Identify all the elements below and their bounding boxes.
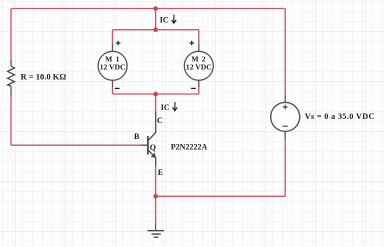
junction node motor top rail [153,27,158,32]
junction node top rail [153,6,158,11]
wire motor bottom rail [113,93,199,95]
motor M2 minus sign [191,87,196,89]
svg-text:12 VDC: 12 VDC [100,63,126,72]
svg-text:Vs = 0 a 35.0 VDC: Vs = 0 a 35.0 VDC [305,112,375,121]
transistor Q1 base lead [141,144,148,146]
wire M1 top [112,30,114,44]
ground lead [155,224,157,231]
wire emitter down [155,166,157,224]
voltage source plus sign [283,105,288,110]
ground symbol [148,231,165,238]
svg-text:E: E [158,168,163,177]
wire base horizontal run [11,144,141,146]
transistor Q1 emitter lead [148,150,155,166]
wire emitter to source bottom [156,195,286,197]
svg-text:12 VDC: 12 VDC [186,63,212,72]
junction node emitter net [153,194,158,199]
motor M1 leads [112,44,114,87]
svg-text:IC: IC [160,16,169,25]
transistor Q1 emitter arrow [151,153,156,158]
wire left vertical lower (resistor to base run) [10,97,12,146]
voltage source Vs bottom lead [284,131,286,138]
wire top drop to motor rail [155,9,157,30]
svg-text:Q: Q [150,143,156,152]
resistor R body [8,66,15,86]
voltage source Vs body [271,102,300,131]
svg-text:C: C [157,116,163,125]
voltage source Vs top lead [284,96,286,103]
wire right vertical (top rail to source) [284,9,286,96]
motor M2 plus sign [189,41,194,46]
motor M1 plus sign [116,41,121,46]
resistor R leads [10,60,12,97]
motor M2 body [184,51,213,80]
wire collector drop [155,94,157,112]
motor M2 leads [198,44,200,87]
wire left vertical upper (to resistor) [10,9,12,60]
current arrow bottom [173,102,178,111]
voltage source minus sign [283,125,288,127]
motor M1 minus sign [115,87,120,89]
wire M2 bottom [198,87,200,94]
wire motor top rail [113,29,199,31]
wire M1 bottom [112,87,114,94]
motor M1 body [98,51,127,80]
junction node motor bottom rail [153,92,158,97]
svg-text:B: B [134,132,140,141]
current arrow top [172,15,177,24]
svg-text:R = 10.0 KΩ: R = 10.0 KΩ [21,72,67,82]
transistor Q1 collector lead [148,112,155,141]
wire M2 top [198,30,200,44]
svg-text:P2N2222A: P2N2222A [171,143,208,152]
wire source bottom vertical [284,139,286,197]
svg-text:IC: IC [161,103,170,112]
wire top rail [11,8,285,10]
transistor Q1 base bar [147,136,149,155]
